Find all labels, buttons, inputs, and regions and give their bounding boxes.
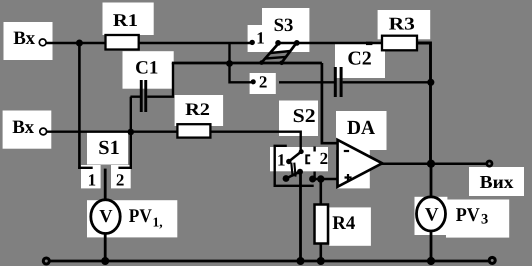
svg-text:V: V [425, 205, 439, 226]
switch S1 stub pin 1 [78, 167, 93, 169]
svg-text:Вих: Вих [480, 172, 515, 192]
junction dot plus input right [317, 175, 324, 182]
wire R4 bottom lead [319, 243, 322, 261]
label box S2 pins band [270, 147, 328, 171]
capacitor C1 right plate [144, 80, 147, 112]
capacitor C1 left plate [140, 80, 143, 112]
op-amp plus sign [345, 174, 352, 181]
bus terminal right [489, 257, 495, 263]
wire S3 contact 2 to C2 [279, 81, 335, 83]
label box R4 [329, 207, 371, 245]
switch S2 lever lower end dot [297, 169, 303, 175]
label box S1 [87, 133, 128, 165]
svg-text:Вх: Вх [12, 117, 34, 138]
switch S2 bracket [275, 146, 314, 186]
switch S1 stub pin 2 [118, 167, 132, 169]
switch S2 common contact dot [299, 149, 304, 154]
svg-text:R4: R4 [332, 213, 355, 234]
junction dot R4 on bus [317, 257, 325, 265]
wire C2 right plate to output node [343, 81, 431, 83]
svg-text:PV: PV [456, 205, 480, 226]
svg-text:Вх: Вх [13, 28, 35, 49]
svg-text:S3: S3 [274, 15, 294, 36]
wire PV1 bottom to ground bus [104, 233, 107, 261]
op-amp DA triangle [338, 140, 383, 187]
wire S2 to ground bus [299, 172, 302, 261]
wire branch to S3 contact 2 [230, 44, 252, 82]
svg-text:R2: R2 [185, 99, 210, 119]
label box PV3 backing [415, 197, 448, 235]
svg-text:S1: S1 [98, 137, 119, 159]
wire top input to R1 [47, 42, 107, 44]
junction dot on inverting line [226, 60, 233, 67]
wire Bx2 input to R2 [47, 130, 179, 132]
input terminal Bx1 [39, 39, 46, 46]
switch S2 lever lower [286, 172, 300, 179]
switch S2 contact stub upper [313, 147, 315, 152]
junction dot C1 branch on Bx2 bus [128, 129, 135, 136]
wire C1 left branch vertical down to S1 leg 2 [130, 97, 140, 169]
label box R3 [378, 10, 431, 39]
resistor R4 [315, 205, 329, 244]
resistor R2 [177, 124, 210, 137]
label box PV1 [87, 200, 177, 237]
op-amp backing box [337, 140, 370, 188]
svg-text:1,: 1, [153, 215, 163, 230]
voltmeter PV1 [91, 200, 120, 234]
label box R1 [103, 3, 154, 36]
svg-text:C1: C1 [135, 58, 158, 79]
switch S3 arm rung lower [266, 57, 287, 59]
output terminal [487, 161, 492, 166]
switch S2 lever upper end dot [286, 159, 291, 164]
wire S3 arm to R3 [278, 42, 383, 44]
capacitor C2 left plate [334, 67, 337, 97]
svg-text:V: V [99, 206, 113, 226]
voltmeter PV3 [417, 197, 446, 231]
label box S1 pin 2 [111, 165, 131, 188]
switch S3 foot dot right [279, 61, 284, 66]
wire vertical from node A down to S1 leg 1 [78, 43, 81, 169]
junction dot plus input left [309, 176, 316, 183]
svg-text:1: 1 [277, 151, 286, 170]
label box S3 contact 2 [250, 73, 276, 94]
junction dot C2 at output branch [427, 79, 434, 86]
wire inverting node horizontal run [172, 62, 322, 65]
svg-text:3: 3 [481, 211, 488, 227]
wire C1 right plate to inverting node [147, 63, 173, 97]
switch S3 arm diagonal right [282, 43, 297, 63]
switch S2 lever upper [289, 152, 301, 162]
resistor R1 [106, 35, 139, 50]
junction dot S2 on bus [297, 257, 305, 265]
bus terminal left [43, 258, 49, 264]
svg-text:PV: PV [129, 206, 152, 227]
label box C1 [123, 51, 174, 88]
label box C2 [335, 44, 385, 78]
ground bus wire [49, 260, 489, 263]
wire PV3 bottom to bus [430, 231, 433, 262]
label box S2 [279, 101, 318, 137]
switch S3 arm rung middle [270, 51, 290, 53]
switch S2 contact stub lower [313, 172, 315, 180]
wire noninverting input [313, 178, 339, 180]
switch S2 pivot dot [283, 175, 290, 182]
label S2 pin C bracket [305, 154, 310, 164]
label box S3 [262, 8, 309, 52]
switch S3 arm diagonal left [262, 43, 279, 62]
svg-text:R1: R1 [113, 10, 138, 30]
wire R1 to S3 contact 1 [138, 42, 251, 44]
junction dot PV3 on bus [427, 257, 435, 265]
svg-text:2: 2 [116, 170, 125, 189]
wire inverting node down to op-amp minus input [322, 63, 339, 143]
wire op-amp output [381, 162, 487, 165]
switch S3 arm dot right [294, 40, 300, 46]
switch S2 link bar right [294, 163, 295, 177]
resistor R3 [382, 36, 417, 51]
svg-text:2: 2 [320, 149, 329, 168]
svg-text:S2: S2 [293, 106, 316, 127]
wire output node down to PV3 [430, 164, 433, 198]
svg-text:R3: R3 [389, 14, 415, 34]
label box R2 [175, 95, 224, 126]
label box S3 contact 1 [248, 25, 262, 52]
wire S1 common stem to PV1 [104, 169, 107, 201]
switch S3 contact 2 dot [251, 79, 256, 84]
junction dot output node [427, 160, 435, 168]
svg-text:DA: DA [347, 117, 376, 139]
label box DA [336, 111, 387, 150]
switch S3 arm dot left [275, 40, 281, 46]
junction dot PV1 on bus [101, 257, 109, 265]
switch S3 foot dot left [259, 60, 264, 65]
wire R4 top lead [319, 179, 322, 205]
switch S3 contact 1 dot [250, 40, 255, 45]
svg-text:1: 1 [88, 171, 97, 190]
node A junction dot top [76, 40, 83, 47]
input terminal Bx2 [40, 128, 47, 135]
svg-text:1: 1 [256, 29, 265, 48]
wire R3 right elbow down to output node [416, 43, 431, 164]
label box Bx1 [4, 22, 53, 60]
wire R2 to S2 elbow [209, 132, 300, 150]
label box Bux output [469, 167, 524, 196]
svg-text:2: 2 [259, 72, 268, 91]
svg-text:C2: C2 [347, 49, 371, 70]
label box S1 pin 1 [81, 165, 101, 188]
label box PV3 [446, 200, 509, 238]
capacitor C2 right plate [340, 67, 343, 97]
pin mark R3 left [366, 42, 372, 45]
label box Bx2 [3, 111, 52, 149]
switch S2 link bar left [291, 163, 292, 177]
op-amp minus sign [344, 150, 349, 152]
